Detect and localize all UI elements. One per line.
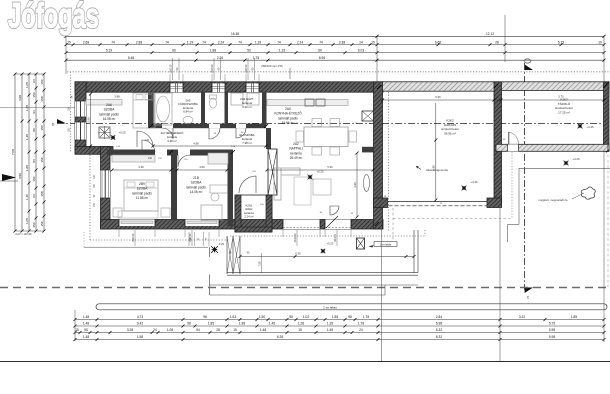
svg-text:150/150: 150/150 <box>189 233 192 242</box>
svg-text:24: 24 <box>359 40 363 44</box>
svg-text:4.88: 4.88 <box>193 141 199 145</box>
canopy dashed line bottom <box>393 218 512 220</box>
svg-text:6.03: 6.03 <box>358 48 364 52</box>
terrace vdim 7.58 <box>261 253 263 273</box>
svg-text:15: 15 <box>371 40 375 44</box>
svg-text:+4.46: +4.46 <box>572 157 580 161</box>
witness line right <box>603 36 605 82</box>
svg-text:28: 28 <box>495 40 499 44</box>
svg-text:1.45: 1.45 <box>327 328 333 332</box>
witness line bottom x500 <box>499 207 501 361</box>
terrace left boundary <box>209 247 211 257</box>
svg-text:7.08: 7.08 <box>11 149 15 155</box>
svg-text:6.96: 6.96 <box>319 56 325 60</box>
window note 2 <box>213 58 215 80</box>
window: left wall lower <box>75 122 86 140</box>
svg-text:98: 98 <box>203 315 207 319</box>
furniture: bedroom2 wardrobe <box>112 155 155 162</box>
terrace right edge double <box>413 230 415 273</box>
window: top wall bathroom <box>170 83 183 92</box>
svg-text:98: 98 <box>348 315 352 319</box>
svg-text:74: 74 <box>165 40 169 44</box>
svg-text:3.56: 3.56 <box>18 173 22 179</box>
furniture: sofa <box>274 168 300 200</box>
witness line garage/storage <box>504 15 506 62</box>
svg-text:+4.46: +4.46 <box>586 125 594 129</box>
interior dim living <box>267 169 373 171</box>
svg-text:15: 15 <box>233 328 237 332</box>
svg-text:16.38: 16.38 <box>231 32 239 36</box>
furniture: bedroom1 plant <box>99 127 110 138</box>
bottom dim row 2 <box>75 325 604 327</box>
svg-text:36.96 m²: 36.96 m² <box>444 131 456 135</box>
furniture: bedroom1 wardrobe <box>86 100 122 106</box>
interior vdim bedroom1 <box>90 94 92 146</box>
svg-text:HEA acélgerenda: HEA acélgerenda <box>426 168 448 172</box>
svg-text:4.48 m²: 4.48 m² <box>167 139 177 143</box>
furniture: bedroom2 bench row <box>118 211 158 218</box>
svg-text:69: 69 <box>318 48 322 52</box>
svg-text:3.22: 3.22 <box>519 315 525 319</box>
svg-text:7.98 m²: 7.98 m² <box>242 141 252 145</box>
svg-text:2.84: 2.84 <box>436 315 442 319</box>
benchmark star terrace right <box>321 249 325 253</box>
svg-text:6.66: 6.66 <box>435 95 441 99</box>
svg-text:90/210: 90/210 <box>334 234 337 242</box>
furniture: dining table <box>304 127 348 147</box>
svg-text:+0.25: +0.25 <box>118 131 126 135</box>
window: bottom wall bedroom3 <box>185 220 219 227</box>
svg-text:Jófogás: Jófogás <box>8 0 99 36</box>
dimension row: top segments 2 <box>66 59 604 61</box>
furniture: armchair <box>313 179 331 195</box>
svg-text:kerámia: kerámia <box>290 151 302 155</box>
wall stub garage bottom left <box>374 198 388 208</box>
wall: storage bottom <box>496 144 609 151</box>
svg-text:64: 64 <box>32 79 36 83</box>
interior dim garage/storage <box>383 99 605 101</box>
dimension row: top openings <box>66 44 604 46</box>
svg-text:15.96 m²: 15.96 m² <box>282 121 295 125</box>
svg-text:32: 32 <box>496 95 499 99</box>
wall: bathroom/wc divider <box>201 92 205 126</box>
svg-text:98: 98 <box>187 322 191 326</box>
svg-text:74: 74 <box>238 40 242 44</box>
interior dim bedroom2 <box>112 169 171 171</box>
wall: house top <box>75 82 383 92</box>
svg-text:3.66: 3.66 <box>199 165 205 169</box>
window note bottom 2 <box>296 230 298 246</box>
roof overhang dotted line bottom <box>90 239 230 241</box>
svg-text:210: 210 <box>145 139 150 142</box>
svg-text:86: 86 <box>32 128 36 132</box>
left dimension block <box>14 74 16 231</box>
svg-text:1.63: 1.63 <box>230 315 236 319</box>
svg-text:2A2: 2A2 <box>293 142 299 146</box>
svg-text:2A6: 2A6 <box>106 103 112 107</box>
svg-text:210: 210 <box>148 157 153 160</box>
svg-text:1.48: 1.48 <box>83 315 89 319</box>
svg-text:3.58: 3.58 <box>86 117 90 123</box>
svg-text:1.78: 1.78 <box>358 322 364 326</box>
window: bottom wall bedroom2 <box>119 220 155 227</box>
svg-text:150: 150 <box>40 125 44 130</box>
svg-text:150: 150 <box>40 221 44 226</box>
svg-text:21B: 21B <box>193 176 199 180</box>
section line D <box>57 122 609 124</box>
benchmark star bedroom1 <box>111 135 115 139</box>
svg-text:69: 69 <box>172 48 176 52</box>
svg-text:14.06 m²: 14.06 m² <box>190 190 203 194</box>
svg-text:1.45: 1.45 <box>25 134 29 140</box>
svg-text:17.25 m²: 17.25 m² <box>558 110 570 114</box>
svg-text:94: 94 <box>32 110 36 114</box>
window: top wall wc <box>212 83 225 92</box>
section flag C top <box>525 65 533 71</box>
svg-text:2-es lakás: 2-es lakás <box>323 306 337 310</box>
benchmark star yard <box>564 161 569 166</box>
corner tick marks <box>377 85 381 89</box>
svg-text:84: 84 <box>32 159 36 163</box>
svg-text:94: 94 <box>196 328 200 332</box>
bottom dim row 4 <box>75 339 604 341</box>
svg-text:10: 10 <box>598 40 602 44</box>
svg-text:150: 150 <box>32 176 36 181</box>
window note bottom 1 <box>191 230 193 246</box>
door: storage bottom <box>508 144 519 151</box>
yard boundary solid L <box>519 167 610 169</box>
svg-text:SZOBA: SZOBA <box>104 108 116 112</box>
svg-text:2.68: 2.68 <box>83 40 89 44</box>
wall: house left lower <box>101 147 111 230</box>
note HEA acelgerenda <box>416 166 421 170</box>
svg-text:74: 74 <box>319 40 323 44</box>
interior vdim living <box>356 153 358 217</box>
watermark Jofogas <box>8 0 99 36</box>
svg-text:6.66: 6.66 <box>435 40 441 44</box>
svg-text:15: 15 <box>67 40 71 44</box>
terrace dim line <box>240 256 414 258</box>
witness stubs under bedroom3 window <box>188 232 190 246</box>
svg-text:1.19: 1.19 <box>187 40 193 44</box>
door: bottom wall living <box>325 220 351 230</box>
benchmark star storage <box>578 124 583 129</box>
door arc bedroom3 <box>178 155 190 167</box>
furniture: wc toilet <box>209 98 216 108</box>
svg-text:5.98: 5.98 <box>549 335 555 339</box>
furniture: kitchen counter <box>267 100 348 106</box>
elevation marker triangle left <box>2 174 16 181</box>
svg-text:5.19: 5.19 <box>106 48 112 52</box>
chimney shaft <box>268 149 277 195</box>
svg-text:150: 150 <box>40 157 44 162</box>
svg-text:50: 50 <box>247 48 251 52</box>
svg-text:158: 158 <box>40 191 44 196</box>
furniture: bedroom2 bed <box>124 180 158 211</box>
terrace lower line 1 <box>210 284 418 286</box>
svg-text:15: 15 <box>298 328 302 332</box>
canopy dashed line left <box>392 208 394 242</box>
roof overhang dotted line left lower <box>89 152 91 240</box>
svg-text:3.28: 3.28 <box>127 328 133 332</box>
wall: bedroom divider <box>171 150 177 221</box>
yard dashed right edge <box>607 155 609 287</box>
benchmark star terrace left <box>211 246 218 253</box>
svg-text:2-es lakás: 2-es lakás <box>380 243 392 246</box>
section flag D <box>57 119 66 123</box>
benchmark star living <box>308 175 313 180</box>
section flag C bottom <box>525 288 533 294</box>
svg-text:laminált padló: laminált padló <box>132 191 152 195</box>
svg-text:24: 24 <box>153 328 157 332</box>
window: top wall utility <box>246 83 259 92</box>
svg-text:5.36: 5.36 <box>327 165 333 169</box>
svg-text:6.28: 6.28 <box>277 335 283 339</box>
svg-text:kerámia: kerámia <box>244 211 254 215</box>
svg-text:+0.23: +0.23 <box>327 241 334 245</box>
svg-text:1.75: 1.75 <box>253 56 259 60</box>
svg-text:11.88 m²: 11.88 m² <box>136 196 148 200</box>
witness line left <box>65 36 67 74</box>
svg-text:16.08 m²: 16.08 m² <box>103 117 116 121</box>
svg-text:KONYHA-ÉTKEZŐ: KONYHA-ÉTKEZŐ <box>274 111 302 116</box>
svg-text:1.78: 1.78 <box>363 315 369 319</box>
svg-text:24: 24 <box>359 328 363 332</box>
svg-text:5.75: 5.75 <box>558 40 564 44</box>
wall: eloszoba right / living left <box>266 128 271 149</box>
svg-text:12.12: 12.12 <box>486 32 494 36</box>
svg-text:1.58: 1.58 <box>137 335 143 339</box>
wall: wc/utility divider <box>225 92 229 126</box>
interior vdim garage <box>435 103 437 200</box>
terrace lower line 2 <box>210 294 385 296</box>
svg-text:150: 150 <box>40 79 44 84</box>
svg-text:1.08: 1.08 <box>167 328 173 332</box>
svg-text:100/150: 100/150 <box>245 64 248 73</box>
svg-text:1.50: 1.50 <box>259 315 265 319</box>
wall: corridor top (bath block bottom) <box>148 124 266 129</box>
door arc bathroom <box>162 128 173 139</box>
svg-text:1.65: 1.65 <box>25 165 29 171</box>
svg-text:1.45: 1.45 <box>269 322 275 326</box>
door arc utility <box>236 128 246 138</box>
wall: utility right <box>262 92 267 126</box>
svg-text:74: 74 <box>111 40 115 44</box>
svg-text:3.88: 3.88 <box>114 95 120 99</box>
label band 2-es lakas <box>96 304 607 310</box>
svg-text:74: 74 <box>277 40 281 44</box>
svg-text:meglévő, megmaradó fa: meglévő, megmaradó fa <box>539 198 568 202</box>
svg-text:6.84 m²: 6.84 m² <box>183 110 193 114</box>
window note 1 <box>172 58 174 80</box>
garage door opening bottom <box>383 201 495 203</box>
furniture: bedroom3 bed <box>201 205 222 220</box>
bottom dim row 1 <box>75 319 604 321</box>
property boundary dashed <box>0 287 610 289</box>
wall: entry vestibule <box>235 195 272 232</box>
svg-text:240/210: 240/210 <box>294 233 297 242</box>
furniture: utility washer <box>231 93 243 105</box>
svg-text:74: 74 <box>202 40 206 44</box>
window note bottom 0 <box>134 230 136 246</box>
svg-text:1.02: 1.02 <box>303 315 309 319</box>
svg-text:150: 150 <box>32 92 36 97</box>
roof overhang dotted line left <box>70 72 72 152</box>
svg-text:SZOBA: SZOBA <box>137 187 149 191</box>
wall: bathroom block left <box>148 92 154 126</box>
wall: house bottom <box>101 220 384 230</box>
window: lower-left wall <box>101 170 111 198</box>
svg-text:-0.29: -0.29 <box>218 242 225 246</box>
furniture: bathroom tub <box>154 93 172 125</box>
svg-text:2.88: 2.88 <box>136 40 142 44</box>
canopy dotted line right <box>511 152 513 219</box>
svg-text:1.98: 1.98 <box>239 322 245 326</box>
interior dim corridor <box>153 145 266 147</box>
svg-text:15: 15 <box>75 328 79 332</box>
svg-text:5.98: 5.98 <box>436 322 442 326</box>
svg-text:1.15: 1.15 <box>279 48 285 52</box>
svg-text:1.05: 1.05 <box>25 218 29 224</box>
wall: house right <box>374 82 383 229</box>
door arc bedroom1 <box>137 131 153 147</box>
wall: house left step <box>75 147 113 155</box>
witness line bottom right <box>603 152 605 342</box>
svg-text:4.73: 4.73 <box>137 315 143 319</box>
furniture: rug <box>294 177 311 205</box>
svg-text:laminált padló: laminált padló <box>278 116 298 120</box>
svg-text:6.32: 6.32 <box>436 335 442 339</box>
window: left wall upper <box>75 101 86 117</box>
furniture: fridge <box>362 111 374 121</box>
svg-text:-0,02 = 102,98: -0,02 = 102,98 <box>15 232 32 236</box>
svg-text:1.85: 1.85 <box>208 322 214 326</box>
door leaf diagonal <box>326 216 338 228</box>
door arc wc <box>209 128 220 139</box>
furniture: bedroom3 desk <box>210 185 228 193</box>
svg-text:158: 158 <box>40 96 44 101</box>
svg-text:1.35: 1.35 <box>327 322 333 326</box>
wall: garage right <box>494 82 502 207</box>
svg-text:1.40: 1.40 <box>25 194 29 200</box>
svg-text:2.24 m²: 2.24 m² <box>244 214 253 218</box>
roof overhang dotted line garage boundary <box>388 92 390 232</box>
door arc entry <box>239 176 256 193</box>
svg-text:1.85: 1.85 <box>332 315 338 319</box>
wall: garage top <box>383 82 502 91</box>
svg-text:1.48: 1.48 <box>83 322 89 326</box>
storage height dim <box>607 83 609 151</box>
wall: storage top <box>501 82 609 91</box>
base line <box>0 361 610 363</box>
witness stubs above top wall <box>169 74 171 82</box>
dimension row: overall width 16.38 / 12.12 <box>66 35 604 37</box>
svg-text:NAPPALI: NAPPALI <box>289 147 302 151</box>
svg-text:98: 98 <box>289 315 293 319</box>
wall stub garage bottom right <box>487 198 502 208</box>
paving edge line lower left <box>84 246 208 248</box>
witness line house right <box>376 36 378 82</box>
furniture: bedroom2 nightstands <box>113 208 122 217</box>
svg-text:268/100 mm PTh: 268/100 mm PTh <box>261 64 283 68</box>
svg-text:26.49 m²: 26.49 m² <box>290 156 303 160</box>
wall: storage right <box>604 82 610 152</box>
wall: house left upper <box>75 82 86 153</box>
svg-text:150/150: 150/150 <box>132 233 135 242</box>
window note bottom 3 <box>336 230 338 246</box>
tree symbol <box>581 187 595 199</box>
svg-text:1.48: 1.48 <box>83 335 89 339</box>
interior dim bedroom3 <box>177 169 227 171</box>
dimension row: top segments <box>66 52 604 54</box>
terrace slab edge double <box>227 272 418 274</box>
svg-text:7.58: 7.58 <box>258 261 261 266</box>
door leaf storage <box>508 132 510 144</box>
svg-text:1.19: 1.19 <box>255 40 261 44</box>
roof pier column <box>357 238 365 249</box>
svg-text:laminált padló: laminált padló <box>99 112 119 116</box>
svg-text:1.28: 1.28 <box>298 322 304 326</box>
svg-text:2.26: 2.26 <box>217 56 223 60</box>
svg-text:5.98: 5.98 <box>549 328 555 332</box>
section line C <box>524 63 526 290</box>
svg-text:64: 64 <box>32 194 36 198</box>
svg-text:3.98: 3.98 <box>18 95 22 101</box>
furniture: bathroom sink <box>183 116 193 123</box>
wall: corridor bottom <box>107 150 233 156</box>
furniture: bedroom3 wardrobe <box>208 153 228 164</box>
witness stubs below bottom wall <box>118 228 120 237</box>
witness line bottom left <box>74 310 76 341</box>
door arc terrace <box>330 206 339 215</box>
svg-text:3.38: 3.38 <box>138 165 144 169</box>
label box 2 sz lakas <box>374 242 397 247</box>
bottom dim row 3 <box>75 332 604 334</box>
terrace stairs <box>226 236 228 274</box>
svg-text:1.85: 1.85 <box>571 315 577 319</box>
furniture: tv <box>364 175 370 192</box>
wall: living right stub <box>362 147 374 153</box>
svg-text:150: 150 <box>32 222 36 227</box>
roof overhang dotted line top <box>67 71 609 73</box>
svg-text:SZOBA: SZOBA <box>191 181 203 185</box>
svg-text:3.98: 3.98 <box>353 182 357 188</box>
svg-text:Előtér: Előtér <box>245 207 252 211</box>
door: bottom wall terrace <box>283 220 320 230</box>
benchmark star garage <box>462 186 467 191</box>
wall: bedroom3 right <box>228 150 234 227</box>
svg-text:28: 28 <box>216 328 220 332</box>
svg-text:+4.46: +4.46 <box>470 180 478 184</box>
svg-text:6.35: 6.35 <box>295 251 301 255</box>
svg-text:1.48: 1.48 <box>260 328 266 332</box>
svg-text:2A0: 2A0 <box>285 107 291 111</box>
svg-text:6.32: 6.32 <box>436 328 442 332</box>
svg-text:D: D <box>52 123 55 127</box>
witness line bottom x378 <box>381 228 383 361</box>
svg-text:95: 95 <box>84 328 88 332</box>
svg-text:5.20 m²: 5.20 m² <box>242 105 252 109</box>
svg-text:2.24: 2.24 <box>218 40 224 44</box>
furniture: bedroom1 bed <box>133 93 155 128</box>
svg-text:150/150: 150/150 <box>211 64 214 73</box>
svg-text:2.24: 2.24 <box>297 40 303 44</box>
svg-text:laminált padló: laminált padló <box>186 185 206 189</box>
svg-text:2B9: 2B9 <box>139 182 145 186</box>
door arc bedroom2 <box>142 140 155 152</box>
svg-text:3.38: 3.38 <box>339 40 345 44</box>
svg-text:5.75: 5.75 <box>549 322 555 326</box>
